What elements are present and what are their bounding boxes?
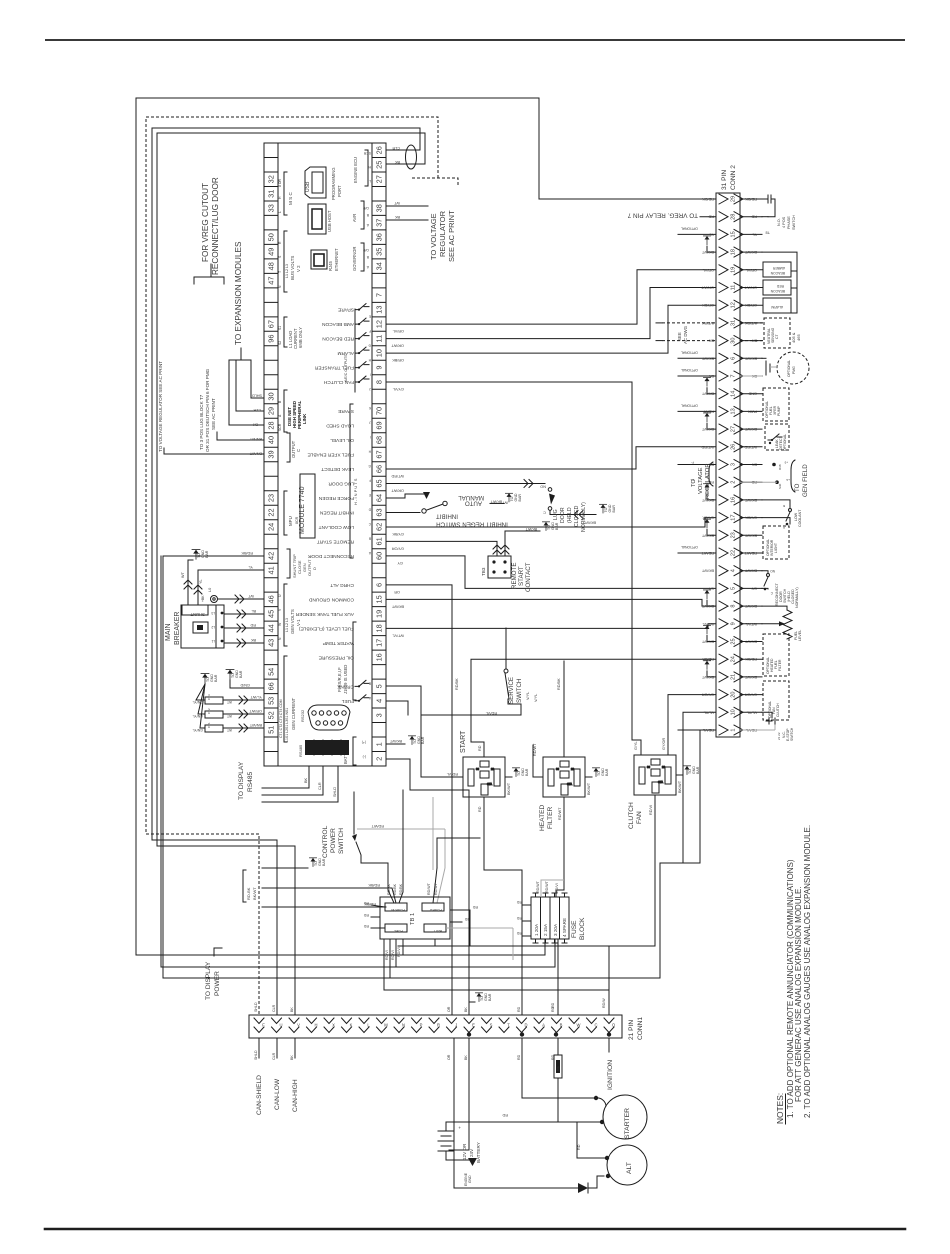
svg-text:PMG: PMG [792, 366, 796, 374]
svg-text:SWITCH: SWITCH [790, 727, 794, 741]
svg-text:FILTER: FILTER [547, 807, 554, 829]
svg-text:FUEL: FUEL [341, 698, 354, 704]
svg-text:BAR: BAR [239, 670, 243, 678]
svg-text:FOR ATT GENERAC USE ANALOG EXP: FOR ATT GENERAC USE ANALOG EXPANSION MOD… [794, 886, 803, 1102]
svg-text:SHLD: SHLD [254, 1050, 258, 1060]
fuse block box [531, 897, 569, 939]
svg-text:CLUTCH: CLUTCH [628, 802, 635, 829]
neutral sensing CT dashed box [764, 318, 790, 348]
L1 load current bracket [284, 317, 287, 347]
svg-text:USB HOST: USB HOST [327, 210, 332, 232]
svg-text:A: A [542, 1023, 545, 1028]
svg-text:2: 2 [731, 481, 737, 484]
TB3 chevrons and gnd [493, 545, 501, 554]
module left pin numbers [266, 175, 275, 734]
wire module pin12 to CONN2 19 [387, 270, 716, 324]
svg-text:CHRG ALT: CHRG ALT [330, 582, 354, 588]
svg-text:WT/VL: WT/VL [392, 633, 404, 637]
fuse block clips [533, 893, 567, 943]
CONN1 junction dots [467, 1032, 471, 1036]
svg-text:7: 7 [374, 293, 383, 297]
svg-text:RD/BK: RD/BK [368, 883, 380, 887]
wire alt top to battery node [577, 1122, 607, 1158]
svg-text:FUEL TRANSFER: FUEL TRANSFER [314, 365, 354, 371]
svg-text:BAR: BAR [518, 494, 522, 502]
svg-text:RJ45: RJ45 [328, 261, 333, 271]
shunt trip output D labels [287, 549, 290, 578]
relay START [463, 757, 505, 797]
svg-text:L1 L2 L3: L1 L2 L3 [285, 264, 289, 278]
svg-text:SHLD: SHLD [254, 1002, 258, 1012]
svg-text:C: C [543, 510, 546, 514]
svg-text:FUSE/W: FUSE/W [390, 908, 405, 912]
svg-text:86: 86 [475, 767, 479, 771]
svg-text:BK/WT: BK/WT [490, 499, 502, 503]
svg-text:REMOTE START: REMOTE START [317, 538, 354, 544]
svg-text:BK: BK [252, 423, 258, 427]
shunt sub box [182, 605, 208, 615]
svg-text:STARTER: STARTER [624, 1108, 631, 1139]
svg-text:INHIBIT REGEN SWITCH: INHIBIT REGEN SWITCH [436, 520, 508, 527]
see AC dwg label and dashed wires [662, 323, 764, 341]
svg-text:LOW COOLANT: LOW COOLANT [318, 524, 354, 530]
svg-text:CAN-LOW: CAN-LOW [274, 1078, 281, 1110]
svg-text:USB: USB [305, 181, 311, 192]
optional heated fuel filter dashed box [763, 634, 789, 676]
reconnect door switch symbol [762, 571, 768, 573]
svg-text:RD/WT: RD/WT [558, 807, 562, 820]
svg-text:RD/VI: RD/VI [385, 950, 389, 960]
svg-text:LEVEL: LEVEL [798, 630, 802, 641]
svg-text:GOVERNOR: GOVERNOR [352, 247, 357, 271]
wire BK bus to module pin 25 [157, 133, 425, 164]
svg-text:40: 40 [266, 436, 275, 444]
wire CONN2 10 VL/YL [683, 712, 716, 863]
A/E/C outputs bracket with switches [354, 309, 356, 392]
engine ECU bracket [365, 150, 368, 186]
svg-text:SEE: SEE [677, 332, 682, 341]
TB1 box [380, 897, 450, 939]
wire module pin61 to TB3 [387, 541, 497, 556]
svg-text:L: L [369, 179, 371, 183]
USB host icon [308, 204, 326, 234]
e-stop switch [762, 712, 772, 718]
svg-text:P: P [420, 1023, 423, 1028]
svg-text:RD: RD [250, 623, 256, 627]
svg-text:45: 45 [266, 610, 275, 618]
MSC bracket [284, 172, 287, 215]
svg-text:NOTES:: NOTES: [775, 1093, 785, 1124]
svg-text:18: 18 [374, 624, 383, 632]
svg-text:RD/BK: RD/BK [387, 883, 391, 895]
svg-text:FILTER: FILTER [778, 659, 782, 671]
svg-text:YL/WT: YL/WT [250, 695, 262, 699]
amber beacon box [763, 262, 791, 277]
lug door switch [548, 488, 552, 492]
svg-text:GY/OR: GY/OR [392, 546, 404, 550]
breaker YL wire to pin 41 [198, 570, 264, 605]
svg-text:62: 62 [374, 523, 383, 531]
svg-text:OR/BK: OR/BK [392, 358, 404, 362]
starter solenoid loop [596, 1098, 606, 1106]
H-inputs bracket [350, 404, 353, 558]
svg-text:12: 12 [731, 302, 737, 308]
svg-text:S1: S1 [278, 326, 282, 330]
svg-text:RD/VI: RD/VI [649, 805, 653, 815]
svg-text:24: 24 [731, 656, 737, 662]
wire CONN1 E BK up to module pin2 [410, 790, 469, 1015]
bus volts V2 bracket [284, 231, 287, 292]
svg-text:RD/WT: RD/WT [427, 882, 431, 895]
svg-text:F-: F- [691, 461, 694, 465]
service switch [505, 628, 507, 668]
svg-text:(+): (+) [362, 740, 366, 744]
svg-text:+5: +5 [784, 461, 788, 465]
svg-text:D: D [312, 567, 317, 570]
svg-text:RD/WT: RD/WT [533, 743, 537, 756]
svg-text:67: 67 [266, 320, 275, 328]
svg-text:4: 4 [731, 569, 737, 572]
svg-text:OIL PRESSURE: OIL PRESSURE [319, 654, 354, 660]
svg-text:V/YL: V/YL [534, 694, 538, 702]
svg-text:TO 3 POS LUG BLOCK T7: TO 3 POS LUG BLOCK T7 [199, 394, 204, 450]
svg-text:LINK: LINK [302, 413, 307, 424]
top page rule [45, 39, 905, 41]
gen volts V-1 bracket [284, 584, 287, 646]
AVR bracket [361, 201, 364, 229]
svg-text:16: 16 [731, 497, 737, 503]
svg-text:12V OR: 12V OR [462, 1143, 467, 1160]
svg-text:GN/YL: GN/YL [192, 728, 203, 732]
clutch fan bottom wire [654, 795, 656, 946]
svg-text:RD/VI: RD/VI [555, 883, 559, 893]
svg-text:OR: OR [447, 1054, 451, 1060]
svg-text:L1S1 L2S1 L3S1 NS1: L1S1 L2S1 L3S1 NS1 [285, 708, 289, 742]
svg-text:BAR: BAR [488, 993, 492, 1001]
svg-text:7: 7 [731, 374, 737, 377]
TB1 inner terminal FUEL [385, 924, 407, 932]
svg-text:17: 17 [374, 639, 383, 647]
svg-text:RD/VL: RD/VL [486, 711, 497, 715]
CONN1 pin chevrons and letters [254, 1018, 614, 1033]
svg-text:CT1: CT1 [207, 722, 211, 728]
svg-text:CT: CT [775, 334, 779, 339]
svg-text:86: 86 [555, 767, 559, 771]
svg-text:OR/WT: OR/WT [249, 709, 262, 713]
svg-text:AMBER: AMBER [772, 266, 785, 270]
svg-text:SEE AC PRINT: SEE AC PRINT [447, 210, 456, 262]
svg-text:FORCE REGEN: FORCE REGEN [318, 495, 354, 501]
svg-text:GN/YL: GN/YL [192, 714, 203, 718]
wire lug door from pin65 [387, 482, 545, 484]
svg-text:CLR: CLR [272, 1004, 276, 1012]
module output/input function labels [295, 307, 354, 704]
svg-text:51: 51 [266, 726, 275, 734]
svg-text:54: 54 [266, 668, 275, 676]
svg-text:4: 4 [374, 699, 383, 703]
svg-text:63: 63 [374, 508, 383, 516]
svg-text:10: 10 [374, 349, 383, 357]
svg-text:W: W [577, 1023, 581, 1028]
svg-text:CLUTCH: CLUTCH [776, 703, 780, 717]
svg-text:INHBIT REGEN: INHBIT REGEN [319, 509, 354, 515]
svg-text:E: E [369, 493, 371, 497]
heated filter riser [563, 661, 565, 757]
wire CAN-HIGH bus down [157, 133, 295, 1015]
low coolant switch [762, 500, 790, 508]
svg-text:WT: WT [227, 714, 232, 718]
RS485 connector block [305, 740, 349, 755]
svg-text:OPTIONAL: OPTIONAL [783, 434, 787, 451]
svg-text:OR/VL: OR/VL [393, 329, 404, 333]
svg-text:50: 50 [266, 233, 275, 241]
svg-text:CLOSED: CLOSED [574, 505, 580, 527]
svg-text:WT/RD: WT/RD [701, 445, 714, 449]
svg-text:SPARE: SPARE [338, 408, 354, 414]
svg-text:RD/BK: RD/BK [241, 551, 253, 555]
svg-text:BK/WT: BK/WT [678, 780, 682, 793]
PMG capacitor [765, 361, 767, 375]
heated filter bottom wire [556, 797, 564, 897]
svg-text:GND: GND [468, 1175, 472, 1183]
svg-text:2 15A: 2 15A [543, 923, 548, 936]
svg-text:S: S [490, 1023, 493, 1028]
wires WT BK from pins 38 37 [387, 205, 428, 207]
svg-text:F+: F+ [690, 478, 694, 482]
svg-text:OPTIONAL: OPTIONAL [681, 368, 698, 372]
svg-text:OR/WT: OR/WT [391, 488, 404, 492]
module left pin grid [264, 158, 386, 752]
wire module pin4 fuel [387, 701, 408, 715]
svg-text:B: B [369, 536, 371, 540]
svg-text:F: F [262, 1023, 265, 1028]
svg-text:BAR: BAR [421, 736, 425, 744]
wire CAN-LOW bus down [152, 128, 277, 1015]
svg-text:69: 69 [374, 421, 383, 429]
svg-text:37: 37 [374, 219, 383, 227]
relay HEATED FILTER [543, 757, 585, 797]
svg-text:BAR: BAR [612, 505, 616, 513]
wire CONN1 J orange down to diode and alt [454, 1038, 578, 1188]
svg-text:FOR VREG CUTOUT: FOR VREG CUTOUT [201, 183, 210, 262]
svg-text:39: 39 [266, 450, 275, 458]
svg-text:4 POS: 4 POS [782, 216, 786, 228]
svg-text:WT: WT [227, 728, 232, 732]
svg-text:SPARE: SPARE [338, 307, 354, 313]
module right pin numbers [374, 146, 383, 761]
start relay bottom wire to CONN1 D [484, 797, 522, 1015]
svg-text:GY/VL: GY/VL [393, 387, 404, 391]
svg-text:RD/WT: RD/WT [536, 880, 540, 893]
svg-text:LUG: LUG [553, 509, 559, 520]
wire CONN1 O ignition stub [608, 1038, 610, 1052]
battery symbol [438, 1131, 454, 1160]
wire module pin8 to clutch fan relay GY/VL [387, 382, 641, 755]
svg-text:96: 96 [266, 334, 275, 342]
svg-text:6: 6 [374, 583, 383, 587]
svg-text:GEN CURRENT: GEN CURRENT [291, 697, 296, 730]
svg-text:61: 61 [374, 537, 383, 545]
fuse feeds top [541, 880, 564, 897]
svg-text:+A: +A [786, 478, 790, 482]
svg-text:CLR: CLR [253, 408, 261, 412]
svg-text:PROGRAMMING: PROGRAMMING [331, 167, 336, 200]
svg-text:GEN FIELD: GEN FIELD [802, 464, 809, 497]
svg-text:CLR: CLR [318, 782, 322, 790]
beacon bus wire [762, 252, 797, 313]
svg-text:BK: BK [250, 638, 256, 642]
svg-text:BATT: BATT [432, 929, 442, 933]
svg-text:MODULE 7740: MODULE 7740 [299, 486, 306, 534]
svg-text:70: 70 [374, 407, 383, 415]
svg-text:36: 36 [374, 233, 383, 241]
svg-text:GN/YL: GN/YL [192, 700, 203, 704]
svg-text:BUS VOLTS: BUS VOLTS [290, 256, 295, 280]
svg-text:TO EXPANSION MODULES: TO EXPANSION MODULES [234, 241, 243, 345]
engine ground [446, 1159, 472, 1161]
svg-text:35: 35 [374, 248, 383, 256]
svg-text:I: I [370, 373, 371, 377]
RS232 DB9 connector [308, 705, 350, 730]
fuse block to CONN1 B wire [557, 939, 559, 1015]
wire top bus to CONN2 pin 29 [136, 98, 716, 199]
svg-text:9: 9 [374, 366, 383, 370]
svg-text:65: 65 [374, 479, 383, 487]
svg-text:RD: RD [516, 916, 522, 920]
wire module pin60 to CONN2 22 GY [387, 556, 716, 588]
svg-text:68: 68 [374, 436, 383, 444]
svg-text:AC DWG: AC DWG [683, 325, 688, 344]
svg-text:21 22: 21 22 [777, 732, 781, 740]
svg-text:BK: BK [290, 1007, 294, 1012]
svg-text:TO VOLTAGE: TO VOLTAGE [429, 213, 438, 260]
TB1 rd/bk feeders [262, 888, 396, 903]
svg-text:WT: WT [227, 700, 232, 704]
svg-text:VOLTAGE: VOLTAGE [698, 467, 704, 494]
svg-text:26: 26 [731, 444, 737, 450]
svg-text:RD/VI: RD/VI [391, 950, 395, 960]
svg-text:RED BEACON: RED BEACON [322, 336, 354, 342]
svg-text:BN/WT: BN/WT [249, 452, 262, 456]
wire RD/BK from bus to pin 42 [163, 555, 264, 557]
gnd near pin 66 [226, 670, 234, 680]
svg-text:CLR: CLR [272, 1052, 276, 1060]
gen field wires with dots [772, 463, 776, 467]
svg-text:OPTIONAL: OPTIONAL [787, 360, 791, 377]
RJ45 ethernet icon [311, 250, 327, 269]
svg-text:FUEL XFER ENABLE: FUEL XFER ENABLE [308, 452, 354, 458]
svg-text:10A: 10A [556, 1066, 560, 1071]
CT coil CT1 [205, 725, 223, 732]
svg-text:V28: V28 [487, 782, 492, 786]
svg-text:LOAD SHED: LOAD SHED [326, 423, 354, 429]
10A fuse [554, 1055, 562, 1078]
svg-text:15: 15 [374, 595, 383, 603]
svg-text:RD: RD [577, 1144, 581, 1150]
svg-text:L3: L3 [211, 611, 215, 615]
svg-text:8: 8 [731, 605, 737, 608]
svg-text:28: 28 [731, 214, 737, 220]
breaker WT wire with ground [188, 560, 193, 605]
svg-text:SCR: SCR [363, 151, 371, 155]
svg-text:PHASE: PHASE [787, 216, 791, 229]
CT coil CT2 [205, 711, 223, 718]
svg-text:L0: L0 [208, 588, 212, 592]
svg-text:10: 10 [731, 709, 737, 715]
manual auto inhibit regen switch [387, 494, 424, 498]
bus H5 [384, 939, 609, 990]
svg-text:OPTIONAL: OPTIONAL [681, 403, 698, 407]
svg-text:1: 1 [374, 742, 383, 746]
svg-text:8 OR: 8 OR [278, 179, 282, 187]
optional PMG dashed circle [777, 352, 809, 384]
svg-text:OPTIONAL: OPTIONAL [681, 226, 698, 230]
svg-text:38: 38 [374, 204, 383, 212]
svg-text:CRANK: CRANK [336, 683, 354, 689]
svg-text:RD: RD [363, 913, 369, 917]
svg-text:3 20A: 3 20A [553, 923, 558, 936]
bottom page rule [45, 1228, 905, 1231]
svg-text:19: 19 [374, 610, 383, 618]
svg-text:23: 23 [266, 494, 275, 502]
svg-text:HEATED: HEATED [539, 805, 546, 831]
svg-text:GY/OR: GY/OR [662, 738, 666, 750]
svg-text:GEN VOLTS: GEN VOLTS [290, 609, 295, 634]
svg-text:RD-BK: RD-BK [246, 887, 251, 900]
svg-text:13: 13 [731, 408, 737, 414]
L0 sensor circle to pin 46 [211, 596, 218, 603]
svg-text:J: J [455, 1023, 457, 1028]
wire module pin62 to CONN2 17 [387, 518, 716, 527]
svg-text:V 2: V 2 [296, 265, 301, 272]
svg-text:SWITCH: SWITCH [338, 828, 345, 854]
wire to pin 39 [164, 448, 264, 454]
svg-text:NORMALLY): NORMALLY) [581, 502, 587, 532]
svg-text:B: B [783, 504, 785, 508]
crank fuel output switches [355, 680, 369, 686]
svg-text:BLOCK: BLOCK [579, 917, 586, 940]
svg-text:FUSED: FUSED [429, 908, 442, 912]
wire to pin 40 [217, 432, 264, 440]
TB1 inner terminal BATT [424, 924, 446, 932]
svg-text:24: 24 [266, 523, 275, 531]
svg-text:U: U [279, 1023, 282, 1028]
svg-text:LUG DOOR: LUG DOOR [328, 480, 354, 486]
svg-text:E: E [472, 1023, 475, 1028]
svg-text:N: N [402, 1023, 405, 1028]
phase switch capacitor [762, 198, 768, 200]
svg-text:30: 30 [266, 392, 275, 400]
svg-text:85: 85 [661, 765, 665, 769]
svg-text:V28: V28 [658, 780, 663, 784]
svg-text:YL: YL [248, 565, 253, 569]
svg-text:21 PIN: 21 PIN [628, 1020, 635, 1040]
svg-text:AMB BEACON: AMB BEACON [321, 321, 354, 327]
svg-text:18: 18 [731, 249, 737, 255]
svg-text:OR/BK: OR/BK [702, 303, 714, 307]
svg-text:F: F [369, 479, 371, 483]
svg-text:RS485: RS485 [298, 744, 303, 757]
31 pin CONN2 strip [716, 193, 740, 737]
svg-text:6MB ONLY: 6MB ONLY [298, 327, 303, 348]
svg-text:A: A [783, 526, 785, 530]
svg-text:REMOTE: REMOTE [511, 563, 518, 589]
svg-text:47: 47 [266, 276, 275, 284]
svg-text:OIL LEVEL: OIL LEVEL [330, 437, 354, 443]
svg-text:34: 34 [374, 262, 383, 270]
wire CONN1 D RD down to starter solenoid [522, 1038, 596, 1098]
wire module pin11 to CONN2 11 [387, 288, 716, 339]
